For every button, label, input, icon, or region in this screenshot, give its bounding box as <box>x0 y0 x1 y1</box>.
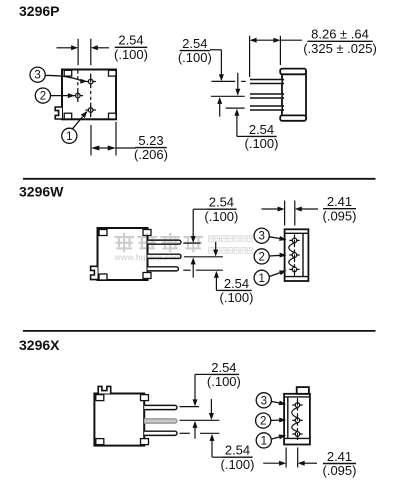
3296W top dim right arrow <box>295 207 318 212</box>
svg-text:2.54: 2.54 <box>249 122 274 137</box>
3296X pin 3 <box>144 431 177 435</box>
svg-text:(.100): (.100) <box>204 209 238 224</box>
3296W pin loop arc 2-3 <box>289 257 295 267</box>
watermark url text www.hqchip.com <box>114 253 182 262</box>
pin callout circle 3 for 3296W <box>254 228 269 243</box>
3296X end-view bottom cap line <box>284 437 310 439</box>
svg-text:2.54: 2.54 <box>211 360 236 375</box>
3296P pin-length dim text 8.26 +/- .64 (.325 +/- .025) <box>303 27 377 56</box>
3296P top dim extension line pin2 column <box>77 39 79 65</box>
3296X pin spacing dim text upper 2.54 (.100) <box>207 360 241 389</box>
svg-text:2.54: 2.54 <box>182 36 207 51</box>
3296X end-view top tab <box>297 387 309 394</box>
3296X body corner square top-right <box>141 395 149 401</box>
3296X ext line pin1 level <box>180 406 200 408</box>
3296P side-view bottom cap <box>280 115 306 120</box>
svg-text:2: 2 <box>258 251 264 263</box>
svg-text:(.100): (.100) <box>245 136 279 151</box>
3296W down arrow to pin2 level <box>213 242 218 257</box>
3296P side-view top cap <box>280 69 306 75</box>
3296X end-view body outline <box>284 394 310 445</box>
svg-text:www.hqchip.com: www.hqchip.com <box>114 253 182 262</box>
watermark small text line 2 <box>209 248 253 254</box>
3296P top-view body outline <box>62 70 116 120</box>
3296X pin 1 mark <box>292 429 302 439</box>
3296X pin 3 mark <box>292 400 302 410</box>
svg-text:2.54: 2.54 <box>209 195 234 210</box>
3296W top dim ext line body face <box>284 201 286 226</box>
3296W top dim ext line pin column <box>294 201 296 226</box>
3296P body corner square bottom-right <box>109 113 117 119</box>
3296P top dim right arrow <box>91 45 109 50</box>
horizontal separator line 2 <box>23 330 376 332</box>
pin callout circle 1 for 3296W <box>254 270 269 285</box>
3296X standoff notch top <box>98 386 111 393</box>
svg-text:(.100): (.100) <box>114 47 148 62</box>
leader from callout 1 to body <box>271 435 286 440</box>
3296P dashed centerline pin2 column <box>77 71 79 103</box>
3296W body corner square top-left <box>99 230 107 236</box>
pin callout circle 3 <box>30 67 45 82</box>
3296W pin spacing dim text lower 2.54 (.100) <box>220 276 254 305</box>
pin callout circle 2 for 3296W <box>254 249 269 264</box>
3296P pin 2 position mark <box>73 90 83 100</box>
leader from callout 3 to body <box>269 236 286 241</box>
svg-text:2.41: 2.41 <box>327 449 352 464</box>
3296X end-view top cap line <box>284 396 310 398</box>
3296X pin 2 mark <box>292 415 302 425</box>
svg-text:(.325 ± .025): (.325 ± .025) <box>303 41 377 56</box>
3296P top dim extension line pin3 column <box>90 39 92 65</box>
leader from callout 1 to body <box>269 270 286 276</box>
svg-text:2.41: 2.41 <box>327 194 352 209</box>
svg-text:(.100): (.100) <box>221 457 255 472</box>
pin callout circle 1 <box>62 128 77 143</box>
3296P pin-length dim line with outward arrows <box>250 38 302 43</box>
section label 3296P <box>19 3 59 19</box>
3296X upper dim elbow leader with down arrow <box>193 374 209 406</box>
3296P down arrow to pin2 level <box>235 73 240 96</box>
3296W up arrow to pin2 from below <box>191 257 196 277</box>
3296W ext line pin3 level <box>183 269 223 271</box>
3296X body corner square bottom-left <box>96 439 104 445</box>
3296X bottom dim ext line pin column <box>297 448 299 468</box>
3296P side-view pin 3 <box>250 106 284 110</box>
3296W pin 3 <box>148 267 179 271</box>
section label 3296W <box>19 184 64 200</box>
3296P ext line pin3 level <box>226 107 245 109</box>
3296X ext line pin3 level <box>180 432 220 434</box>
3296W body corner square top-right <box>143 230 151 236</box>
svg-text:1: 1 <box>258 273 264 285</box>
3296P up arrow to pin2 from below <box>217 97 222 117</box>
svg-text:2: 2 <box>40 91 46 103</box>
3296P lower dim elbow leader with up arrow <box>234 109 246 137</box>
3296P pin-length dim ext line at pin tips <box>249 36 251 77</box>
3296X body corner square bottom-right <box>141 439 149 445</box>
3296W side-view body outline <box>98 228 148 280</box>
3296W standoff notch left <box>91 266 98 279</box>
svg-text:3296X: 3296X <box>19 337 60 353</box>
3296W ext line pin1 level <box>183 242 200 244</box>
svg-text:(.100): (.100) <box>178 50 212 65</box>
3296X pin loop arc 1-2 <box>292 407 298 418</box>
svg-text:3296W: 3296W <box>19 184 64 200</box>
3296P top dim left arrow <box>57 45 79 50</box>
3296P ext line pin1 level <box>211 80 245 82</box>
3296X body corner square top-left <box>96 395 104 401</box>
3296X dashed pin centerline <box>297 398 299 440</box>
3296X bottom dim left arrow <box>263 461 286 466</box>
3296P body corner square top-left <box>64 70 72 76</box>
svg-text:2.54: 2.54 <box>224 276 249 291</box>
3296W ext line pin2 level <box>184 256 223 258</box>
svg-text:1: 1 <box>66 131 72 143</box>
svg-text:5.23: 5.23 <box>138 133 163 148</box>
svg-text:8.26 ± .64: 8.26 ± .64 <box>311 27 369 42</box>
3296X down arrow to pin2 level <box>209 399 214 420</box>
3296W end-view inner wall line <box>302 233 304 276</box>
3296X end-view inner wall line <box>287 397 289 439</box>
3296W top dim text 2.41 (.095) <box>323 194 357 223</box>
3296X bottom dim text 2.41 (.095) <box>323 449 357 478</box>
svg-text:2.54: 2.54 <box>225 443 250 458</box>
section label 3296X <box>19 337 60 353</box>
3296X pin loop arc 2-3 <box>292 423 298 432</box>
3296W pin 1 <box>148 240 181 244</box>
svg-text:3: 3 <box>34 70 40 82</box>
3296P body corner square top-right <box>109 70 117 76</box>
3296P bottom dim line with outward arrows <box>91 146 136 151</box>
svg-text:2.54: 2.54 <box>118 33 143 48</box>
pin callout circle 2 for 3296X <box>256 413 271 428</box>
leader from callout 3 to pin 3 <box>45 75 87 83</box>
watermark small text line 1 <box>209 236 253 242</box>
3296P upper dim elbow leader with down arrow <box>210 50 224 81</box>
3296P side-view body main <box>282 72 306 120</box>
leader from callout 2 to body <box>269 253 286 258</box>
svg-text:(.206): (.206) <box>134 147 168 162</box>
3296P ext line pin2 level <box>211 95 245 97</box>
svg-text:(.095): (.095) <box>323 208 357 223</box>
leader from callout 2 to body <box>271 418 286 423</box>
3296P pin spacing dim text lower 2.54 (.100) <box>245 122 279 151</box>
svg-text:(.100): (.100) <box>220 290 254 305</box>
3296W end-view top cap line <box>285 232 309 234</box>
pin callout circle 2 <box>35 88 50 103</box>
pin callout circle 3 for 3296X <box>256 393 271 408</box>
3296X pin 2 hidden gray <box>144 419 177 423</box>
3296P bottom dim extension line body edge <box>115 122 117 156</box>
svg-text:2: 2 <box>260 416 266 428</box>
3296X pin spacing dim text lower 2.54 (.100) <box>221 443 255 472</box>
3296P body corner square bottom-left <box>64 113 72 119</box>
3296X up arrow to pin2 from below <box>193 421 198 439</box>
3296P pin spacing dim text upper 2.54 (.100) <box>178 36 212 65</box>
3296W pin loop arc 1-2 <box>289 243 295 253</box>
3296W lower dim elbow leader with up arrow <box>214 271 222 291</box>
3296P side standoff notch <box>55 107 62 119</box>
3296P pin 1 position mark <box>86 105 96 115</box>
3296P dashed centerline pin1/3 column <box>90 74 92 118</box>
3296X pin 1 <box>144 405 177 409</box>
3296X side-view body outline <box>94 394 144 446</box>
leader from callout 1 to pin 1 <box>73 111 88 129</box>
3296W pin 2 mark <box>289 250 299 260</box>
3296W dashed pin centerline <box>294 235 296 277</box>
3296W pin spacing dim text upper 2.54 (.100) <box>204 195 238 224</box>
3296W end-view bottom cap line <box>285 276 309 278</box>
3296X ext line pin2 level <box>180 419 220 421</box>
svg-text:(.095): (.095) <box>323 463 357 478</box>
3296P pin-length dim ext line at body face <box>279 36 281 65</box>
svg-text:3: 3 <box>261 395 267 407</box>
3296W upper dim elbow leader with down arrow <box>191 209 207 243</box>
svg-text:3: 3 <box>258 231 264 243</box>
3296P top dim text 2.54 (.100) <box>114 33 148 62</box>
3296P bottom dim extension line pin column <box>90 125 92 156</box>
3296W top dim left arrow <box>262 207 285 212</box>
svg-text:3296P: 3296P <box>19 3 59 19</box>
svg-text:1: 1 <box>261 435 267 447</box>
3296P pin 3 position mark <box>86 76 96 86</box>
3296P bottom dim text 5.23 (.206) <box>134 133 168 162</box>
3296W pin 2 <box>148 254 182 258</box>
3296X bottom dim ext line body face <box>285 448 287 468</box>
3296P side-view pin 2 <box>250 94 284 98</box>
3296P side-view pin 1 <box>250 80 284 84</box>
pin callout circle 1 for 3296X <box>256 433 271 448</box>
svg-text:(.100): (.100) <box>207 374 241 389</box>
3296X lower dim elbow leader with up arrow <box>210 434 223 457</box>
watermark large brand characters <box>116 234 203 251</box>
3296X bottom dim right arrow <box>298 461 317 466</box>
leader from callout 3 to body <box>271 401 286 406</box>
3296W body corner square bottom-left <box>99 274 107 280</box>
3296W pin 3 mark <box>289 235 299 245</box>
3296W end-view body outline <box>285 229 309 281</box>
leader from callout 2 to pin 2 <box>51 93 75 98</box>
3296W body corner square bottom-right <box>143 273 151 279</box>
3296W pin 1 mark <box>289 264 299 274</box>
horizontal separator line 1 <box>23 178 376 180</box>
